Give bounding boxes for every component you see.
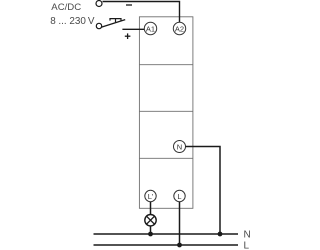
junction dot N wire on N rail — [218, 232, 223, 237]
divider line 2 — [139, 110, 193, 112]
terminal N — [174, 141, 186, 153]
svg-text:AC/DC: AC/DC — [51, 2, 81, 13]
wire from N terminal to N rail — [186, 147, 221, 235]
svg-text:N: N — [177, 142, 182, 151]
terminal A1 — [144, 22, 156, 34]
label 8 ... 230 V — [50, 16, 95, 27]
N rail — [94, 233, 239, 235]
junction dot lamp on N rail — [148, 232, 153, 237]
wire from L terminal to L rail — [179, 202, 181, 245]
supply terminal (minus) — [96, 1, 102, 7]
wire from lamp to N rail — [150, 226, 152, 234]
wire from L' to lamp — [150, 202, 152, 215]
svg-text:L’: L’ — [148, 192, 154, 201]
svg-text:A1: A1 — [146, 24, 155, 33]
divider line 1 — [139, 64, 193, 66]
supply terminal (plus) — [96, 23, 101, 28]
label L — [244, 241, 250, 250]
lamp E1 — [145, 215, 156, 226]
label N — [244, 229, 251, 240]
plus sign — [125, 33, 131, 39]
minus sign — [126, 4, 132, 6]
terminal A2 — [173, 22, 185, 34]
terminal L — [174, 190, 185, 201]
svg-text:A2: A2 — [175, 24, 184, 33]
push-button switch S1 — [101, 19, 125, 28]
terminal L' — [145, 190, 156, 201]
svg-text:L: L — [244, 241, 250, 250]
svg-text:N: N — [244, 229, 251, 240]
L rail — [94, 244, 239, 246]
junction dot L wire on L rail — [177, 243, 182, 248]
wire from switch to A1 — [122, 28, 144, 30]
divider line 3 — [139, 157, 193, 159]
device body outline — [139, 17, 193, 209]
svg-text:L: L — [177, 192, 181, 201]
wire from minus terminal to A2 — [103, 2, 180, 23]
svg-text:8 ... 230 V: 8 ... 230 V — [50, 16, 95, 27]
label AC/DC — [51, 2, 81, 13]
